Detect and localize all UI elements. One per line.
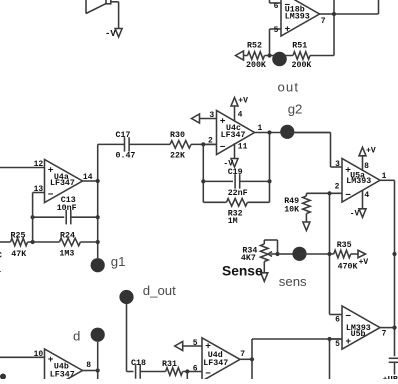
svg-text:C19: C19: [228, 168, 243, 177]
svg-text:11: 11: [238, 143, 248, 152]
svg-text:200K: 200K: [292, 61, 312, 70]
svg-text:LM393: LM393: [346, 177, 371, 186]
svg-text:Sense: Sense: [222, 264, 263, 279]
svg-text:-V: -V: [105, 29, 116, 39]
svg-text:R51: R51: [292, 41, 307, 50]
svg-text:6: 6: [274, 2, 279, 11]
svg-text:0.47: 0.47: [116, 151, 136, 160]
svg-text:+: +: [205, 341, 211, 352]
svg-text:U5b: U5b: [351, 329, 366, 339]
svg-text:470K: 470K: [338, 262, 358, 271]
svg-text:8: 8: [86, 361, 91, 370]
svg-text:LM393: LM393: [285, 12, 310, 21]
svg-text:1M: 1M: [228, 217, 238, 226]
svg-text:LF347: LF347: [221, 131, 246, 140]
svg-text:C17: C17: [116, 131, 131, 140]
svg-text:4K7: 4K7: [241, 254, 256, 263]
svg-text:7: 7: [382, 330, 387, 339]
svg-text:R25: R25: [11, 231, 26, 240]
svg-text:2: 2: [335, 182, 340, 191]
svg-text:22K: 22K: [170, 151, 185, 160]
svg-text:4: 4: [238, 111, 243, 120]
svg-text:6: 6: [193, 365, 198, 374]
svg-text:5: 5: [274, 26, 279, 35]
svg-text:6: 6: [335, 315, 340, 324]
svg-text:3: 3: [209, 111, 214, 120]
svg-text:−: −: [205, 368, 211, 379]
svg-text:7: 7: [321, 17, 326, 26]
svg-text:13: 13: [34, 185, 44, 194]
svg-text:22nF: 22nF: [228, 189, 248, 198]
svg-text:1M3: 1M3: [59, 250, 74, 259]
svg-text:+V: +V: [366, 147, 376, 156]
svg-text:−: −: [220, 141, 226, 152]
svg-text:R52: R52: [247, 41, 262, 50]
svg-text:d: d: [73, 328, 80, 343]
svg-text:d_out: d_out: [143, 283, 176, 298]
svg-text:LF347: LF347: [50, 370, 75, 379]
svg-text:LF347: LF347: [50, 179, 75, 188]
svg-text:LF347: LF347: [203, 359, 228, 368]
svg-text:g1: g1: [111, 254, 126, 269]
svg-text:+V: +V: [238, 96, 248, 105]
svg-text:-: -: [0, 268, 2, 277]
svg-text:C18: C18: [131, 359, 146, 368]
svg-text:5: 5: [193, 339, 198, 348]
svg-text:-V: -V: [350, 210, 360, 219]
svg-text:R24: R24: [60, 231, 75, 240]
svg-text:+: +: [48, 354, 54, 365]
svg-text:out: out: [278, 79, 300, 94]
svg-text:1: 1: [258, 124, 263, 133]
svg-text:−: −: [345, 190, 351, 201]
svg-text:10: 10: [34, 350, 44, 359]
svg-text:7: 7: [240, 350, 245, 359]
svg-text:−: −: [345, 311, 351, 322]
svg-text:10K: 10K: [284, 205, 299, 214]
svg-text:3: 3: [335, 160, 340, 169]
svg-text:8: 8: [364, 162, 369, 171]
svg-text:+V: +V: [359, 258, 369, 267]
svg-text:R35: R35: [337, 241, 352, 250]
svg-text:sens: sens: [279, 274, 307, 289]
svg-text:g2: g2: [288, 101, 303, 116]
svg-text:47K: 47K: [11, 250, 26, 259]
svg-text:+: +: [285, 24, 291, 35]
svg-text:12: 12: [34, 160, 44, 169]
svg-text:C: C: [0, 252, 2, 261]
svg-text:−: −: [48, 189, 54, 200]
svg-text:+: +: [48, 164, 54, 175]
svg-text:2: 2: [208, 136, 213, 145]
svg-text:14: 14: [83, 173, 93, 182]
svg-text:R31: R31: [162, 360, 177, 369]
svg-text:5: 5: [335, 340, 340, 349]
svg-text:R30: R30: [170, 131, 185, 140]
svg-text:1: 1: [382, 172, 387, 181]
svg-text:+: +: [220, 115, 226, 126]
svg-text:4: 4: [364, 191, 369, 200]
svg-text:200K: 200K: [246, 61, 266, 70]
svg-text:+UB: +UB: [383, 375, 398, 379]
svg-text:10nF: 10nF: [57, 204, 77, 213]
